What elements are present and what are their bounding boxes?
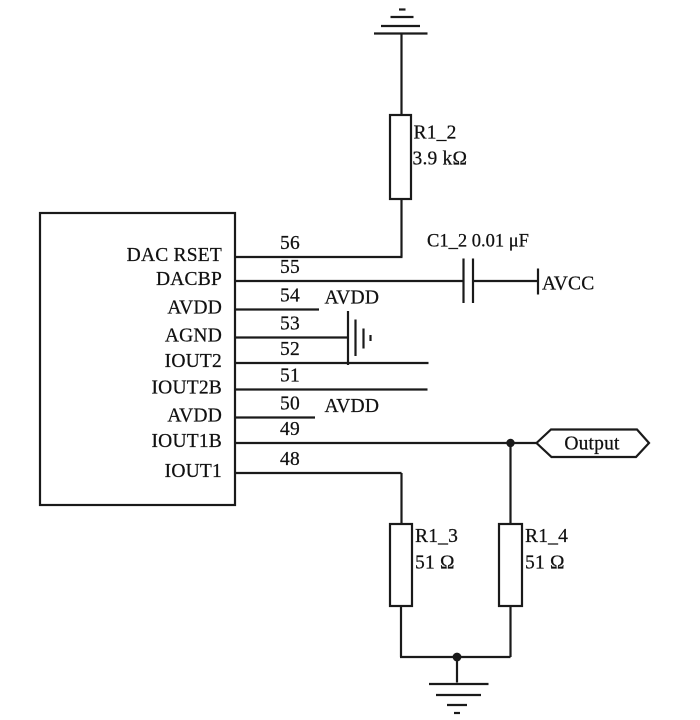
svg-text:AVDD: AVDD <box>325 288 380 309</box>
svg-text:54: 54 <box>280 286 300 307</box>
svg-text:51: 51 <box>280 366 300 387</box>
svg-text:R1_2: R1_2 <box>414 123 457 144</box>
svg-text:IOUT2B: IOUT2B <box>151 378 222 399</box>
svg-text:AVDD: AVDD <box>325 396 380 417</box>
svg-text:R1_4: R1_4 <box>525 526 568 547</box>
svg-text:AGND: AGND <box>165 326 222 347</box>
svg-text:55: 55 <box>280 257 300 278</box>
svg-text:IOUT2: IOUT2 <box>165 351 222 372</box>
svg-text:IOUT1: IOUT1 <box>165 461 222 482</box>
svg-text:AVDD: AVDD <box>167 406 222 427</box>
svg-text:51 Ω: 51 Ω <box>525 553 565 574</box>
svg-text:C1_2 0.01 μF: C1_2 0.01 μF <box>427 232 529 252</box>
svg-text:DAC RSET: DAC RSET <box>127 245 222 266</box>
svg-text:IOUT1B: IOUT1B <box>151 431 222 452</box>
svg-text:AVCC: AVCC <box>542 274 594 295</box>
svg-text:Output: Output <box>564 434 620 455</box>
svg-text:48: 48 <box>280 449 300 470</box>
svg-text:R1_3: R1_3 <box>415 526 458 547</box>
svg-text:49: 49 <box>280 419 300 440</box>
svg-text:3.9 kΩ: 3.9 kΩ <box>413 149 468 170</box>
svg-text:56: 56 <box>280 233 300 254</box>
svg-text:51 Ω: 51 Ω <box>415 553 455 574</box>
svg-text:AVDD: AVDD <box>167 298 222 319</box>
svg-text:52: 52 <box>280 339 300 360</box>
svg-text:50: 50 <box>280 394 300 415</box>
svg-text:DACBP: DACBP <box>156 269 222 290</box>
svg-text:53: 53 <box>280 314 300 335</box>
